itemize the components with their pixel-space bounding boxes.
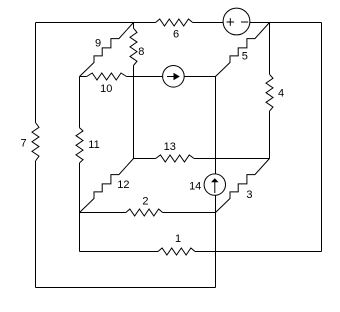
resistor R12 (diagonal node N11 to node N8) <box>80 159 134 213</box>
wire right vertical <box>321 23 323 252</box>
wire left vertical upper <box>35 23 37 123</box>
svg-text:12: 12 <box>117 179 129 191</box>
svg-text:14: 14 <box>189 181 201 193</box>
svg-text:4: 4 <box>278 88 284 100</box>
resistor R4 <box>266 74 273 111</box>
svg-text:9: 9 <box>95 38 101 50</box>
wire current source I14 to node F <box>215 195 217 212</box>
svg-text:11: 11 <box>88 139 99 151</box>
resistor R6 <box>156 19 193 26</box>
wire R6 to voltage source V1 <box>193 22 224 24</box>
wire R11 to node N11 <box>79 163 81 213</box>
current source (right arrow) <box>163 66 185 88</box>
wire-1 left segment <box>80 251 159 253</box>
svg-text:10: 10 <box>100 83 112 95</box>
wire node N8 to R13 <box>134 158 156 160</box>
wire R4 to node G <box>269 111 271 158</box>
resistor R10 <box>87 73 127 80</box>
resistor R7 <box>32 123 39 162</box>
svg-text:8: 8 <box>138 46 144 58</box>
svg-text:1: 1 <box>175 233 181 245</box>
wire R8 to node N8 <box>133 66 135 159</box>
current source I14 (up arrow) <box>204 174 225 195</box>
resistor R13 <box>156 155 195 162</box>
resistor R1 <box>158 248 195 255</box>
resistor R11 <box>76 128 83 163</box>
wire node A to R8 <box>133 23 135 29</box>
wire R10 to current source <box>127 76 163 78</box>
resistor R3 (diagonal node F to node G) <box>216 159 270 213</box>
svg-text:5: 5 <box>242 51 248 63</box>
resistor R8 <box>130 28 137 65</box>
wire R13 to node G <box>194 158 269 160</box>
wire node E to R4 <box>269 23 271 75</box>
wire R2 to node F <box>163 212 216 214</box>
resistor R2 <box>126 209 163 216</box>
wire node B to R10 <box>80 76 87 78</box>
resistor R5 (diagonal node D to node E) <box>216 23 270 77</box>
wire node N11 to R2 <box>80 212 126 214</box>
svg-text:7: 7 <box>20 138 26 150</box>
wire left vertical lower <box>35 161 37 288</box>
svg-text:6: 6 <box>173 29 179 41</box>
wire-1 right segment <box>195 251 322 253</box>
voltage source V1 <box>223 8 250 35</box>
svg-text:13: 13 <box>164 141 176 153</box>
wire top-left (node TL to R6) <box>36 22 156 24</box>
resistor R9 (diagonal node B to node A) <box>80 23 134 77</box>
wire bottom <box>36 287 216 289</box>
svg-text:2: 2 <box>142 196 148 208</box>
wire node D down to current source I14 <box>215 77 217 174</box>
wire bottom up to node F <box>215 213 217 288</box>
wire current source to node D <box>184 76 215 78</box>
wire node B down to R11 <box>79 77 81 128</box>
wire up to node N11 <box>79 213 81 252</box>
wire voltage source to node TR via node E <box>250 22 322 24</box>
svg-text:3: 3 <box>246 189 252 201</box>
